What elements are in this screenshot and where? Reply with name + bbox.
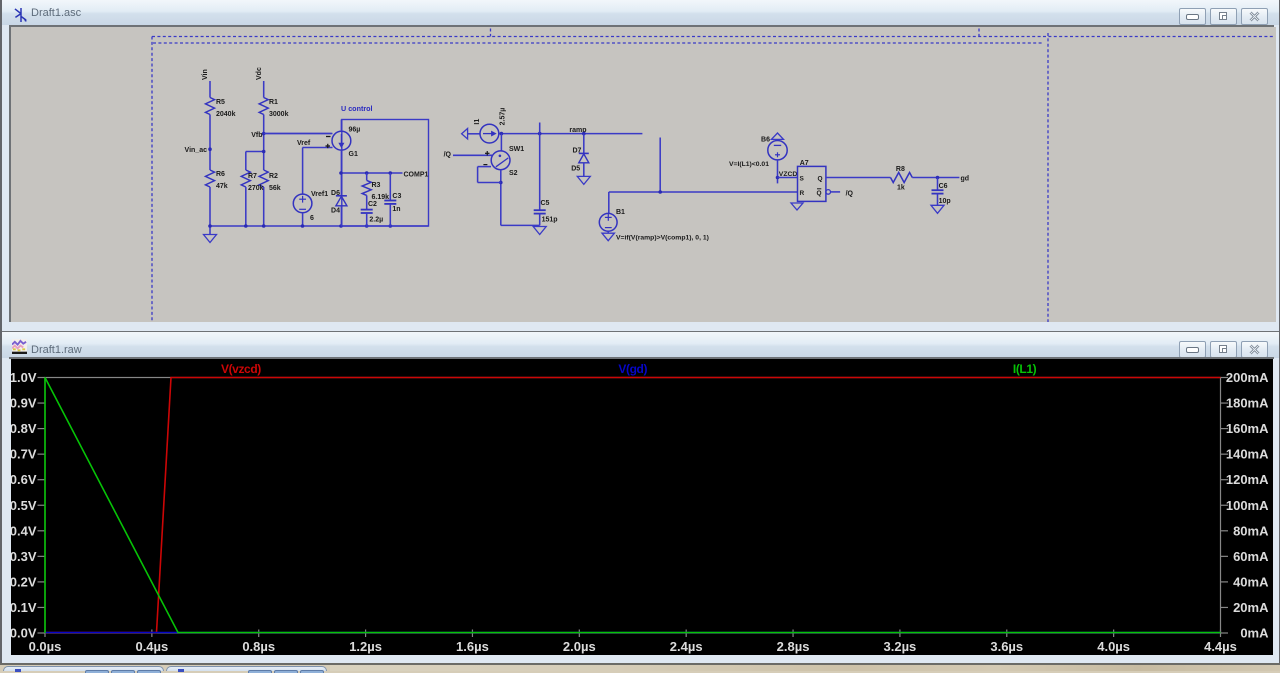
svg-text:V(vzcd): V(vzcd) bbox=[221, 362, 261, 376]
svg-text:R8: R8 bbox=[896, 166, 905, 173]
svg-text:V=if(V(ramp)>V(comp1), 0, 1): V=if(V(ramp)>V(comp1), 0, 1) bbox=[616, 235, 709, 242]
svg-text:0.1V: 0.1V bbox=[11, 600, 37, 615]
svg-text:0.5V: 0.5V bbox=[11, 498, 37, 513]
svg-text:R1: R1 bbox=[269, 99, 278, 106]
svg-text:2.0µs: 2.0µs bbox=[563, 639, 596, 654]
svg-text:R5: R5 bbox=[216, 99, 225, 106]
svg-text:2.8µs: 2.8µs bbox=[777, 639, 810, 654]
svg-text:U control: U control bbox=[341, 104, 373, 113]
svg-text:0.0µs: 0.0µs bbox=[29, 639, 62, 654]
svg-text:80mA: 80mA bbox=[1233, 523, 1269, 538]
svg-text:0.8µs: 0.8µs bbox=[242, 639, 275, 654]
svg-text:2.57µ: 2.57µ bbox=[500, 108, 507, 126]
svg-text:3000k: 3000k bbox=[269, 111, 289, 118]
svg-text:C2: C2 bbox=[368, 201, 377, 208]
svg-text:20mA: 20mA bbox=[1233, 600, 1269, 615]
svg-text:R2: R2 bbox=[269, 173, 278, 180]
svg-text:56k: 56k bbox=[269, 185, 281, 192]
svg-text:R: R bbox=[800, 190, 805, 197]
svg-text:Vin_ac: Vin_ac bbox=[185, 147, 208, 154]
svg-text:A7: A7 bbox=[800, 160, 809, 167]
svg-text:Vdc: Vdc bbox=[256, 67, 263, 80]
svg-text:D5: D5 bbox=[571, 166, 580, 173]
svg-text:0.4µs: 0.4µs bbox=[135, 639, 168, 654]
svg-text:180mA: 180mA bbox=[1226, 396, 1269, 411]
svg-text:SW1: SW1 bbox=[509, 146, 524, 153]
svg-text:2040k: 2040k bbox=[216, 111, 236, 118]
svg-text:200mA: 200mA bbox=[1226, 370, 1269, 385]
svg-text:COMP1: COMP1 bbox=[404, 172, 429, 179]
svg-text:R6: R6 bbox=[216, 171, 225, 178]
svg-text:0.7V: 0.7V bbox=[11, 447, 37, 462]
svg-text:140mA: 140mA bbox=[1226, 447, 1269, 462]
svg-text:1.0V: 1.0V bbox=[11, 370, 37, 385]
svg-text:10p: 10p bbox=[939, 198, 951, 205]
svg-text:3.6µs: 3.6µs bbox=[990, 639, 1023, 654]
svg-text:270k: 270k bbox=[248, 185, 264, 192]
svg-text:I1: I1 bbox=[474, 119, 481, 125]
svg-text:S: S bbox=[800, 176, 805, 183]
svg-text:0.2V: 0.2V bbox=[11, 574, 37, 589]
svg-text:1.6µs: 1.6µs bbox=[456, 639, 489, 654]
svg-text:1n: 1n bbox=[392, 206, 400, 213]
svg-text:Vref: Vref bbox=[297, 140, 311, 147]
svg-text:47k: 47k bbox=[216, 183, 228, 190]
svg-text:D7: D7 bbox=[572, 148, 581, 155]
svg-text:1k: 1k bbox=[897, 185, 905, 192]
svg-text:C5: C5 bbox=[541, 200, 550, 207]
svg-text:gd: gd bbox=[961, 176, 970, 183]
svg-text:B1: B1 bbox=[616, 209, 625, 216]
svg-text:I(L1): I(L1) bbox=[1013, 362, 1037, 376]
svg-text:4.4µs: 4.4µs bbox=[1204, 639, 1237, 654]
svg-text:B6: B6 bbox=[761, 137, 770, 144]
svg-text:Vfb: Vfb bbox=[251, 132, 262, 139]
svg-text:0mA: 0mA bbox=[1240, 626, 1269, 641]
svg-text:S2: S2 bbox=[509, 170, 518, 177]
svg-text:C3: C3 bbox=[392, 193, 401, 200]
svg-text:60mA: 60mA bbox=[1233, 549, 1269, 564]
svg-text:100mA: 100mA bbox=[1226, 498, 1269, 513]
svg-text:V=I(L1)<0.01: V=I(L1)<0.01 bbox=[729, 161, 769, 168]
svg-text:6: 6 bbox=[310, 215, 314, 222]
svg-text:2.4µs: 2.4µs bbox=[670, 639, 703, 654]
svg-text:Q: Q bbox=[816, 190, 821, 197]
svg-text:G1: G1 bbox=[349, 151, 358, 158]
svg-text:0.3V: 0.3V bbox=[11, 549, 37, 564]
svg-text:151p: 151p bbox=[542, 217, 558, 224]
svg-text:C6: C6 bbox=[939, 183, 948, 190]
svg-text:40mA: 40mA bbox=[1233, 574, 1269, 589]
svg-text:/Q: /Q bbox=[846, 191, 854, 198]
svg-text:R3: R3 bbox=[372, 182, 381, 189]
svg-text:Vin: Vin bbox=[202, 69, 209, 80]
svg-text:1.2µs: 1.2µs bbox=[349, 639, 382, 654]
svg-text:2.2µ: 2.2µ bbox=[369, 217, 383, 224]
svg-text:D6: D6 bbox=[331, 190, 340, 197]
svg-text:/Q: /Q bbox=[444, 151, 452, 158]
svg-text:3.2µs: 3.2µs bbox=[884, 639, 917, 654]
svg-text:0.8V: 0.8V bbox=[11, 421, 37, 436]
svg-text:VZCD: VZCD bbox=[779, 171, 798, 178]
svg-text:Q: Q bbox=[817, 176, 822, 183]
svg-text:R7: R7 bbox=[248, 173, 257, 180]
svg-text:160mA: 160mA bbox=[1226, 421, 1269, 436]
svg-text:120mA: 120mA bbox=[1226, 472, 1269, 487]
svg-text:0.6V: 0.6V bbox=[11, 472, 37, 487]
svg-text:4.0µs: 4.0µs bbox=[1097, 639, 1130, 654]
svg-text:0.9V: 0.9V bbox=[11, 396, 37, 411]
svg-text:96µ: 96µ bbox=[349, 127, 361, 134]
svg-text:D4: D4 bbox=[331, 208, 340, 215]
svg-text:0.4V: 0.4V bbox=[11, 523, 37, 538]
svg-text:Vref1: Vref1 bbox=[311, 191, 328, 198]
svg-text:V(gd): V(gd) bbox=[618, 362, 647, 376]
